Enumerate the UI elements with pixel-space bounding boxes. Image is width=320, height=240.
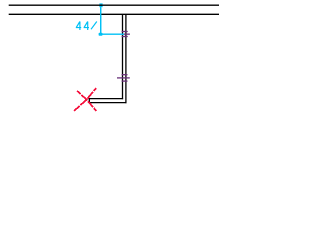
dimension top dot (99, 3, 102, 7)
fitting F2 lower bar (122, 80, 128, 82)
wall line bottom (9, 13, 219, 15)
dimension text foot tick (91, 22, 97, 30)
dimension text 4 (second) (84, 22, 89, 31)
duct end cap (88, 98, 90, 103)
dimension bottom dot (99, 33, 103, 36)
dimension horizontal line (101, 33, 124, 35)
fitting F1 upper bar (122, 31, 128, 33)
duct left vertical line (122, 15, 124, 99)
fitting F1 long bar (122, 33, 130, 35)
fitting F1 lower bar (122, 36, 128, 38)
dimension text 4 (first) (76, 22, 81, 31)
error mark X stroke 2 (74, 88, 96, 111)
duct right vertical line (125, 15, 127, 103)
dimension vertical line lower part (100, 8, 102, 34)
duct inner horizontal line (89, 98, 123, 100)
fitting F2 long bar (117, 77, 130, 79)
wall line top (9, 4, 219, 6)
duct outer horizontal line (89, 102, 127, 104)
error mark X stroke 1 (77, 91, 96, 111)
fitting F2 upper bar (122, 74, 128, 76)
dimension vertical line (100, 5, 102, 34)
